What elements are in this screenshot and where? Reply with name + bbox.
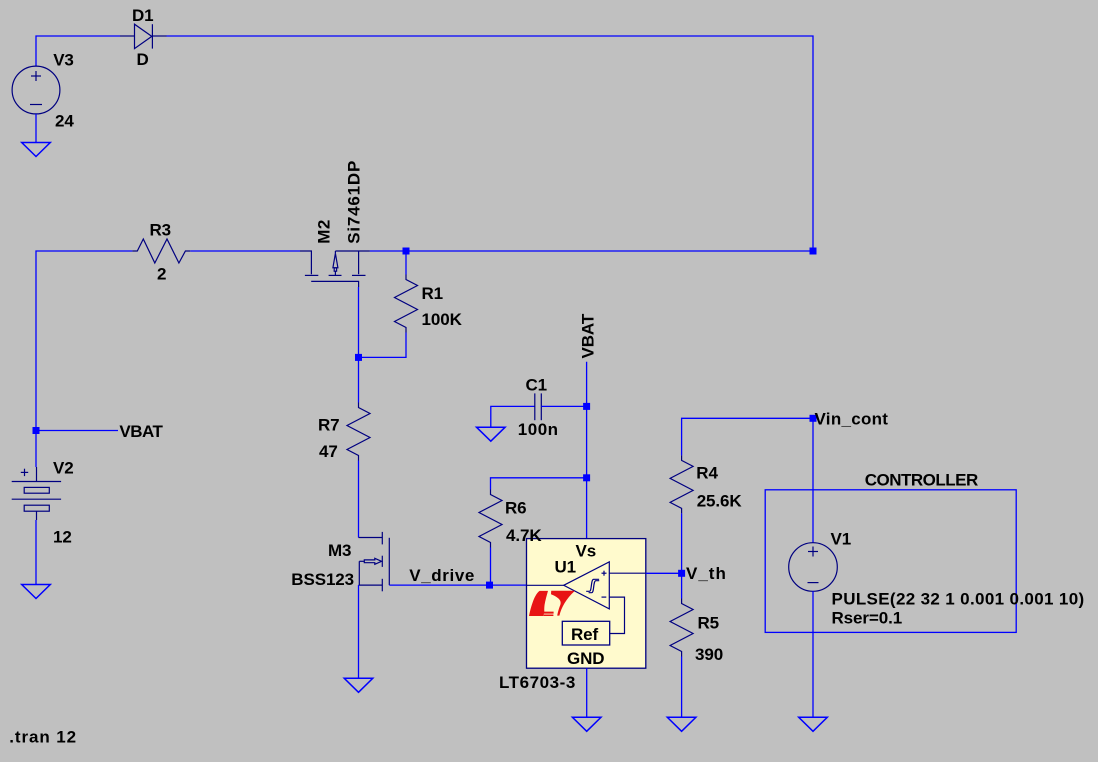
wire R3 to M2 source	[190, 250, 300, 252]
svg-text:2: 2	[157, 265, 166, 284]
ground below U1	[572, 717, 601, 731]
LT logo left swoosh	[529, 591, 554, 616]
wire V2 to ground	[35, 520, 37, 585]
battery V2	[12, 467, 61, 520]
voltage source V3	[12, 66, 60, 114]
svg-text:R3: R3	[150, 221, 172, 240]
LT logo right swoosh	[551, 591, 574, 616]
svg-text:Si7461DP: Si7461DP	[344, 160, 363, 244]
box CONTROLLER	[765, 490, 1016, 633]
wire C1 left and to ground	[491, 406, 535, 427]
wire VBAT rail down to U1 Vs	[586, 362, 588, 539]
svg-text:C1: C1	[526, 376, 548, 395]
op-amp U1 LT6703-3	[527, 539, 646, 669]
svg-text:M3: M3	[328, 541, 351, 560]
svg-text:Ref: Ref	[571, 625, 599, 644]
transistor M3	[359, 532, 390, 591]
svg-text:100n: 100n	[518, 420, 559, 439]
svg-text:V1: V1	[831, 530, 852, 549]
svg-text:Vs: Vs	[576, 542, 597, 561]
svg-text:BSS123: BSS123	[291, 570, 354, 589]
junction M2 rail right	[810, 248, 817, 255]
wire R5 bottom to ground	[681, 657, 683, 718]
ground below C1	[477, 427, 506, 441]
junction Vin_cont node	[810, 415, 817, 422]
svg-text:R1: R1	[422, 284, 444, 303]
wire VBAT node down to V2	[35, 431, 37, 468]
junction R1 top	[403, 248, 410, 255]
svg-text:D: D	[137, 50, 149, 69]
junction V_drive node	[486, 582, 493, 589]
ground below V1	[799, 717, 828, 731]
junction C1 at VBAT rail	[583, 403, 590, 410]
svg-text:U1: U1	[555, 558, 577, 577]
ground below M3	[344, 678, 373, 692]
wire R6 bottom to V_drive node	[490, 548, 492, 586]
ground below V3	[22, 143, 51, 157]
voltage source V1	[789, 543, 838, 592]
wire U1 GND to ground	[586, 668, 588, 717]
svg-text:R7: R7	[318, 416, 340, 435]
wire U1 plus input to V_th	[646, 572, 682, 574]
resistor R5	[670, 599, 693, 657]
svg-text:VBAT: VBAT	[119, 422, 163, 441]
wire V3 to ground	[35, 114, 37, 143]
ground below R5	[667, 717, 696, 731]
wire R6 top rail	[491, 478, 587, 490]
wire M3 source to ground	[358, 585, 360, 678]
svg-text:R4: R4	[696, 464, 718, 483]
resistor R3	[132, 239, 190, 263]
svg-text:V2: V2	[53, 459, 74, 478]
svg-text:M2: M2	[315, 219, 334, 244]
svg-text:V_drive: V_drive	[409, 566, 475, 585]
resistor R1	[395, 275, 418, 333]
svg-text:25.6K: 25.6K	[697, 491, 743, 510]
wire C1 right to VBAT rail	[541, 405, 586, 407]
svg-text:LT6703-3: LT6703-3	[499, 673, 576, 692]
resistor R4	[670, 455, 693, 513]
diode D1	[120, 24, 167, 48]
svg-text:24: 24	[55, 112, 74, 131]
svg-text:47: 47	[319, 442, 338, 461]
svg-text:CONTROLLER: CONTROLLER	[865, 471, 978, 490]
svg-text:R5: R5	[698, 614, 720, 633]
wire R4 bottom to V_th	[681, 513, 683, 573]
svg-text:GND: GND	[567, 649, 604, 668]
wire top rail from D1 to right corner and down	[167, 36, 814, 251]
wire R4 top rail	[682, 418, 813, 455]
wire VBAT stub at V2	[36, 430, 118, 432]
resistor R6	[479, 490, 502, 548]
svg-text:R6: R6	[505, 499, 527, 518]
svg-text:PULSE(22 32 1 0.001 0.001 10): PULSE(22 32 1 0.001 0.001 10)	[832, 590, 1085, 609]
svg-text:VBAT: VBAT	[579, 313, 598, 358]
svg-text:12: 12	[53, 528, 72, 547]
wire top rail from V3 to D1 anode	[36, 36, 120, 66]
wire R1 top pin	[405, 251, 407, 275]
svg-text:4.7K: 4.7K	[506, 526, 542, 545]
wire V_th to R5	[681, 573, 683, 598]
svg-text:390: 390	[695, 645, 723, 664]
junction VBAT node	[33, 427, 40, 434]
wire gate node to R7	[358, 357, 360, 402]
wire V1 bottom to ground	[812, 591, 814, 717]
svg-text:D1: D1	[132, 6, 154, 25]
ground below V2	[22, 585, 51, 599]
svg-text:.tran 12: .tran 12	[9, 728, 77, 747]
svg-text:Vin_cont: Vin_cont	[815, 410, 889, 429]
junction gate node	[355, 354, 362, 361]
svg-text:Rser=0.1: Rser=0.1	[832, 609, 903, 628]
wire from left rail to R3	[36, 251, 132, 431]
wire M2 gate down	[358, 287, 360, 357]
svg-text:V3: V3	[53, 51, 74, 70]
wire R7 to M3 drain	[358, 461, 360, 538]
wire M2 drain rail to right	[370, 250, 813, 252]
wire V_drive from M3 gate to comparator	[389, 584, 527, 586]
svg-text:V_th: V_th	[686, 564, 727, 583]
wire Vin_cont down to V1	[812, 418, 814, 542]
wire R1 bottom to gate node	[359, 333, 407, 358]
transistor M2	[300, 251, 370, 287]
svg-text:100K: 100K	[422, 310, 463, 329]
junction V_th node	[678, 570, 685, 577]
junction R6 tap	[583, 474, 590, 481]
capacitor C1	[535, 393, 542, 420]
resistor R7	[347, 403, 370, 461]
